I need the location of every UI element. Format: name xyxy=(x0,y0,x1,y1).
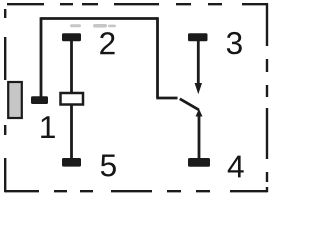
pin 4 terminal xyxy=(188,158,210,167)
wire: pin 4 riser xyxy=(198,116,201,159)
wire: common stub xyxy=(156,97,177,100)
pin label 2 xyxy=(100,32,114,54)
case orientation mark (gray tab) xyxy=(8,82,22,118)
relay case outline right (dashed) xyxy=(266,3,268,192)
arrowhead down (pin 3 contact) xyxy=(195,83,202,94)
relay case outline bottom (dashed) xyxy=(5,190,267,192)
wire: pin 2 to coil xyxy=(70,40,73,93)
pin label 4 xyxy=(228,156,244,178)
pin 5 terminal xyxy=(62,158,81,167)
pin 2 terminal xyxy=(62,33,81,41)
pin label 1 xyxy=(41,116,55,138)
wire: coil to pin 5 xyxy=(70,106,73,159)
coil xyxy=(61,93,84,105)
relay case outline left (dashed) xyxy=(4,9,6,192)
wire: left drop to pin 1 xyxy=(40,17,43,96)
wire: right drop (common) xyxy=(156,17,159,98)
pin 3 terminal xyxy=(188,33,208,41)
pin label 3 xyxy=(227,32,242,54)
wire: top rail from pin1 drop to switch drop xyxy=(41,17,158,20)
scan smudge under top rail xyxy=(70,24,116,28)
arrowhead up (pin 4 common pole) xyxy=(196,109,203,117)
wire: pin 3 contact with down arrow xyxy=(197,40,200,83)
relay case outline top (dashed) xyxy=(7,3,268,5)
movable contact arm (diagonal) xyxy=(180,99,199,110)
pin 1 terminal xyxy=(31,96,48,104)
pin label 5 xyxy=(101,154,116,176)
